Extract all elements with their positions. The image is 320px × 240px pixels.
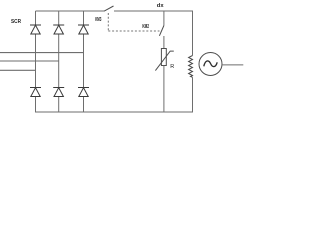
svg-text:KM3: KM3: [95, 17, 101, 23]
wire: top DC rail left of switch: [36, 10, 105, 12]
switch KM2 blade: [159, 26, 164, 36]
wire: bridge leg 3 vertical: [83, 11, 85, 112]
thyristor V3 (top row, leg 2): [53, 25, 64, 34]
wire: bridge leg 2 vertical: [58, 11, 60, 112]
mechanical linkage dashed horizontal to KM2: [108, 30, 159, 32]
varistor R diagonal arrow: [155, 51, 173, 71]
wire: phase input line L1: [0, 52, 84, 54]
wire: bridge leg 1 vertical: [35, 11, 37, 112]
switch KM2 lower terminal wire: [163, 36, 165, 49]
svg-text:dx: dx: [157, 3, 165, 9]
AC source sine symbol: [204, 61, 217, 67]
wire: bottom DC rail: [35, 111, 193, 113]
switch KM3 blade: [104, 6, 114, 11]
thyristor V5 (top row, leg 3): [78, 25, 89, 34]
wire: right branch vertical lower: [192, 77, 194, 112]
wire: phase input line L2: [0, 60, 59, 62]
wire: top DC rail right of switch: [114, 10, 193, 12]
wire: right branch vertical upper: [192, 11, 194, 56]
wire: AC source right lead: [222, 64, 243, 66]
thyristor V4 (bottom row, leg 1): [30, 88, 41, 97]
svg-text:KM2: KM2: [142, 24, 149, 30]
thyristor V2 (bottom row, leg 3): [78, 88, 89, 97]
varistor R body (box): [161, 49, 166, 66]
wire: varistor lower lead: [163, 66, 165, 113]
resistor (zigzag) in right branch: [189, 56, 193, 78]
wire: phase input line L3: [0, 69, 36, 71]
svg-text:R: R: [170, 64, 174, 70]
thyristor V1 (top row, leg 1): [30, 25, 41, 34]
thyristor V6 (bottom row, leg 2): [53, 88, 64, 97]
mechanical linkage dashed vertical from KM3: [107, 13, 109, 31]
switch KM2 upper terminal wire: [163, 11, 165, 26]
svg-text:SCR: SCR: [11, 19, 22, 25]
AC source G circle: [199, 53, 222, 76]
